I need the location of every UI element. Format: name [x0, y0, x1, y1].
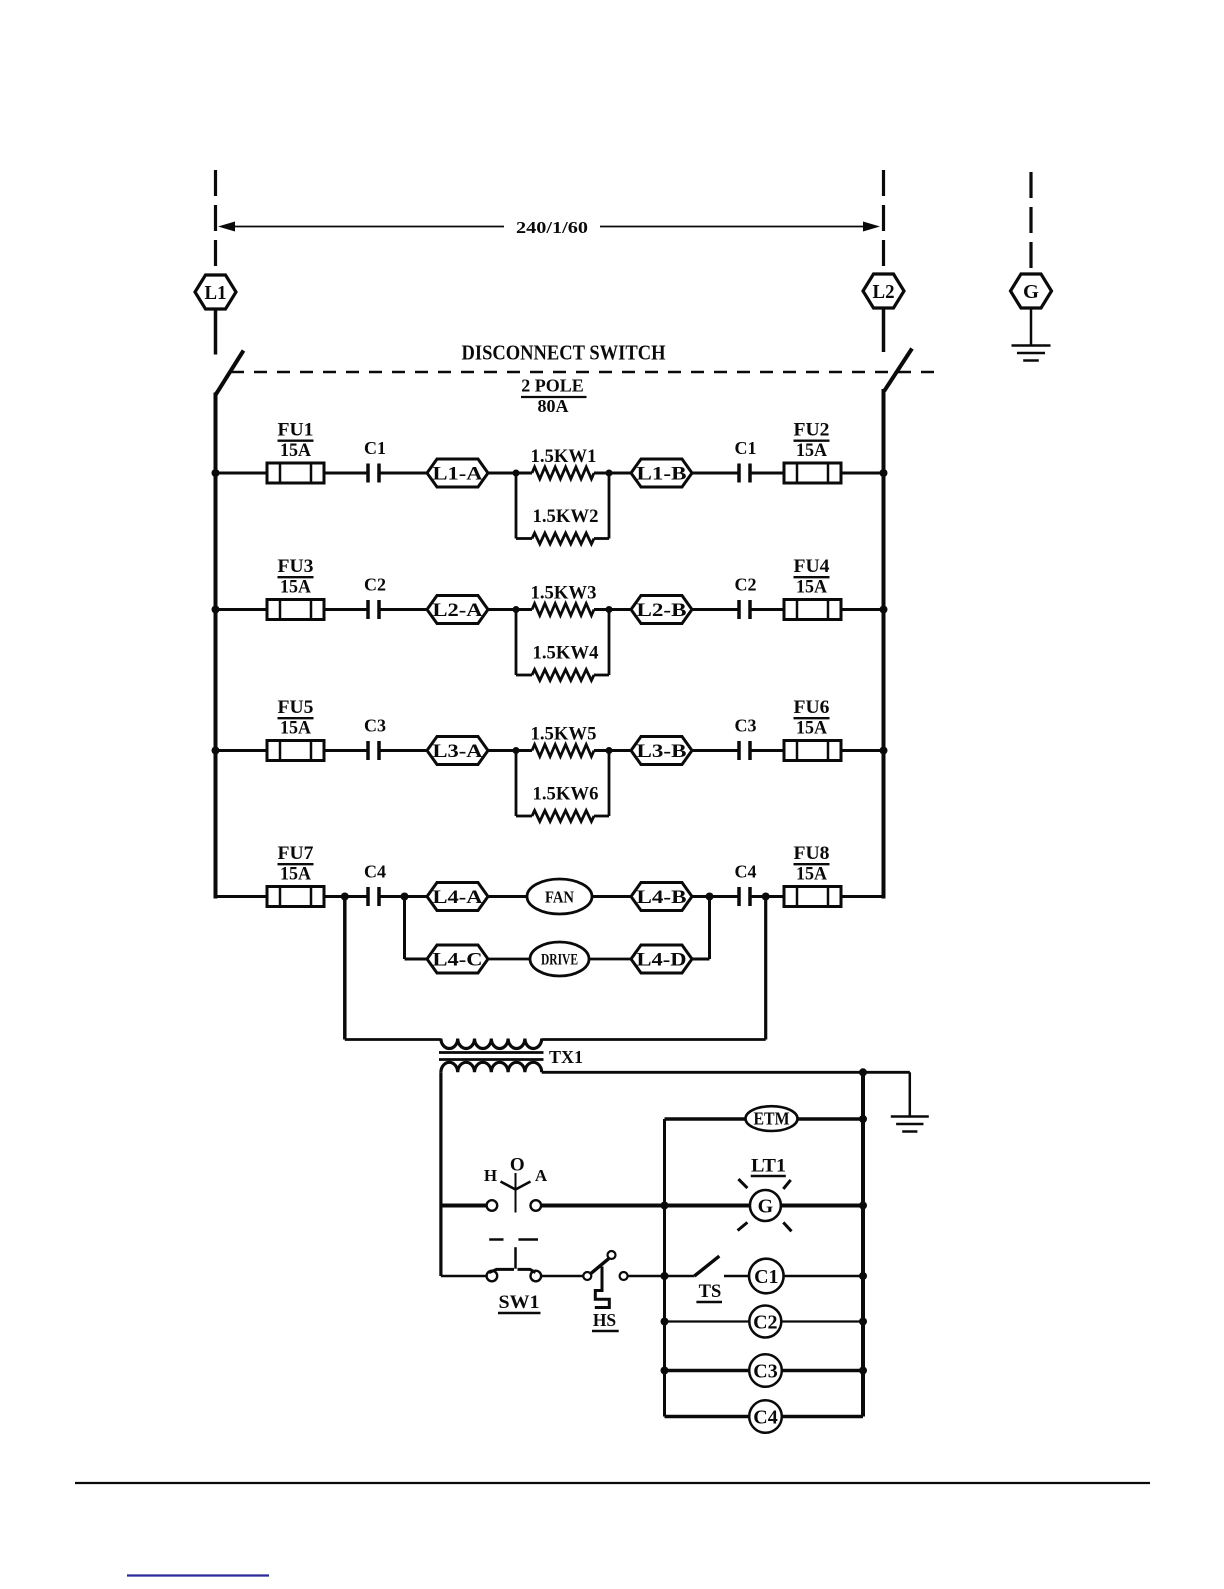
svg-text:C1: C1 — [754, 1266, 778, 1288]
svg-text:1.5KW5: 1.5KW5 — [531, 725, 597, 745]
svg-text:L4-C: L4-C — [433, 950, 483, 971]
svg-text:C1: C1 — [735, 438, 757, 458]
svg-text:L4-D: L4-D — [637, 950, 687, 971]
svg-text:L2-B: L2-B — [637, 600, 687, 621]
svg-text:1.5KW6: 1.5KW6 — [533, 785, 599, 805]
svg-text:1.5KW2: 1.5KW2 — [533, 507, 599, 527]
svg-text:FU5: FU5 — [278, 698, 314, 718]
svg-text:ETM: ETM — [754, 1109, 790, 1129]
svg-text:G: G — [1023, 281, 1039, 303]
svg-text:1.5KW1: 1.5KW1 — [531, 447, 597, 467]
svg-text:TS: TS — [699, 1282, 722, 1302]
svg-text:80A: 80A — [538, 396, 569, 416]
svg-text:15A: 15A — [280, 719, 312, 739]
svg-text:C3: C3 — [753, 1361, 777, 1383]
svg-text:FU8: FU8 — [794, 844, 830, 864]
svg-text:C4: C4 — [364, 862, 386, 882]
svg-text:15A: 15A — [280, 578, 312, 598]
svg-text:L2-A: L2-A — [433, 600, 483, 621]
svg-text:15A: 15A — [796, 441, 828, 461]
svg-text:C2: C2 — [753, 1312, 777, 1334]
svg-text:C2: C2 — [364, 575, 386, 595]
svg-text:DRIVE: DRIVE — [541, 952, 578, 969]
svg-text:C4: C4 — [753, 1407, 777, 1429]
svg-text:HS: HS — [593, 1310, 616, 1330]
svg-text:L4-B: L4-B — [637, 887, 687, 908]
svg-text:L2: L2 — [873, 281, 895, 303]
svg-text:SW1: SW1 — [499, 1293, 540, 1313]
svg-text:L1: L1 — [205, 282, 227, 304]
svg-text:L1-B: L1-B — [637, 464, 687, 485]
svg-text:L3-B: L3-B — [637, 741, 687, 762]
svg-text:FU3: FU3 — [278, 557, 314, 577]
svg-text:G: G — [758, 1196, 774, 1218]
svg-text:C3: C3 — [364, 716, 386, 736]
svg-text:15A: 15A — [796, 865, 828, 885]
svg-text:15A: 15A — [280, 441, 312, 461]
svg-text:15A: 15A — [280, 865, 312, 885]
svg-text:DISCONNECT SWITCH: DISCONNECT SWITCH — [462, 341, 666, 365]
svg-text:C4: C4 — [735, 862, 757, 882]
svg-text:1.5KW4: 1.5KW4 — [533, 644, 599, 664]
svg-text:L1-A: L1-A — [433, 464, 483, 485]
svg-text:C1: C1 — [364, 438, 386, 458]
svg-text:FU1: FU1 — [278, 421, 314, 441]
svg-text:240/1/60: 240/1/60 — [516, 218, 588, 237]
svg-text:C3: C3 — [735, 716, 757, 736]
svg-text:A: A — [535, 1166, 548, 1185]
svg-text:FAN: FAN — [545, 888, 575, 907]
svg-text:LT1: LT1 — [751, 1156, 786, 1177]
svg-text:FU6: FU6 — [794, 698, 830, 718]
svg-text:15A: 15A — [796, 719, 828, 739]
svg-text:L4-A: L4-A — [433, 887, 483, 908]
svg-text:1.5KW3: 1.5KW3 — [531, 584, 597, 604]
svg-text:H: H — [484, 1166, 497, 1185]
svg-text:O: O — [510, 1155, 525, 1176]
svg-text:FU4: FU4 — [794, 557, 830, 577]
svg-text:L3-A: L3-A — [433, 741, 483, 762]
svg-text:TX1: TX1 — [549, 1047, 583, 1067]
svg-text:2 POLE: 2 POLE — [521, 376, 584, 396]
svg-text:FU2: FU2 — [794, 421, 830, 441]
svg-text:15A: 15A — [796, 578, 828, 598]
svg-text:FU7: FU7 — [278, 844, 314, 864]
svg-text:C2: C2 — [735, 575, 757, 595]
